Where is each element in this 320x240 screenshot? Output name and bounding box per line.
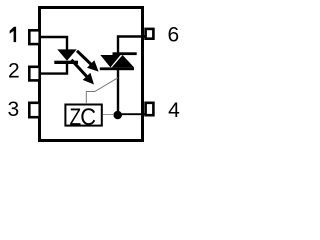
pin 1 box — [29, 30, 39, 44]
triac MT2 top bar — [113, 52, 137, 55]
wire pin1 to LED anode — [40, 37, 67, 50]
svg-text:2: 2 — [8, 60, 20, 83]
LED D1 anode triangle — [57, 49, 76, 60]
light arrow 2 shaft — [71, 60, 88, 78]
LED D1 cathode bar — [54, 61, 78, 64]
junction node dot — [113, 111, 122, 120]
svg-text:6: 6 — [168, 24, 180, 47]
triac right triangle — [112, 55, 134, 67]
optocoupler body U1 — [40, 8, 143, 141]
triac left triangle — [100, 55, 120, 67]
wire triac MT2 to pin6 — [118, 37, 145, 55]
wire ZC to node — [103, 114, 113, 116]
svg-text:3: 3 — [7, 98, 19, 121]
svg-text:C: C — [80, 104, 96, 131]
light arrow 2 head — [83, 73, 94, 85]
svg-text:4: 4 — [168, 99, 180, 122]
pin 6 box — [146, 29, 154, 39]
wire triac MT1 down to node — [117, 69, 119, 115]
light arrow 1 shaft — [77, 51, 92, 66]
ZC box — [65, 105, 101, 126]
pin 1 label — [10, 27, 16, 42]
pin 3 box — [29, 103, 39, 117]
gate line ZC to triac — [86, 78, 118, 104]
wire node to pin4 — [118, 113, 146, 115]
pin 2 box — [29, 67, 39, 81]
triac MT1 bottom bar — [100, 67, 134, 70]
light arrow 1 head — [87, 60, 99, 71]
pin 4 box — [146, 103, 154, 115]
wire LED cathode to pin2 — [40, 63, 67, 74]
